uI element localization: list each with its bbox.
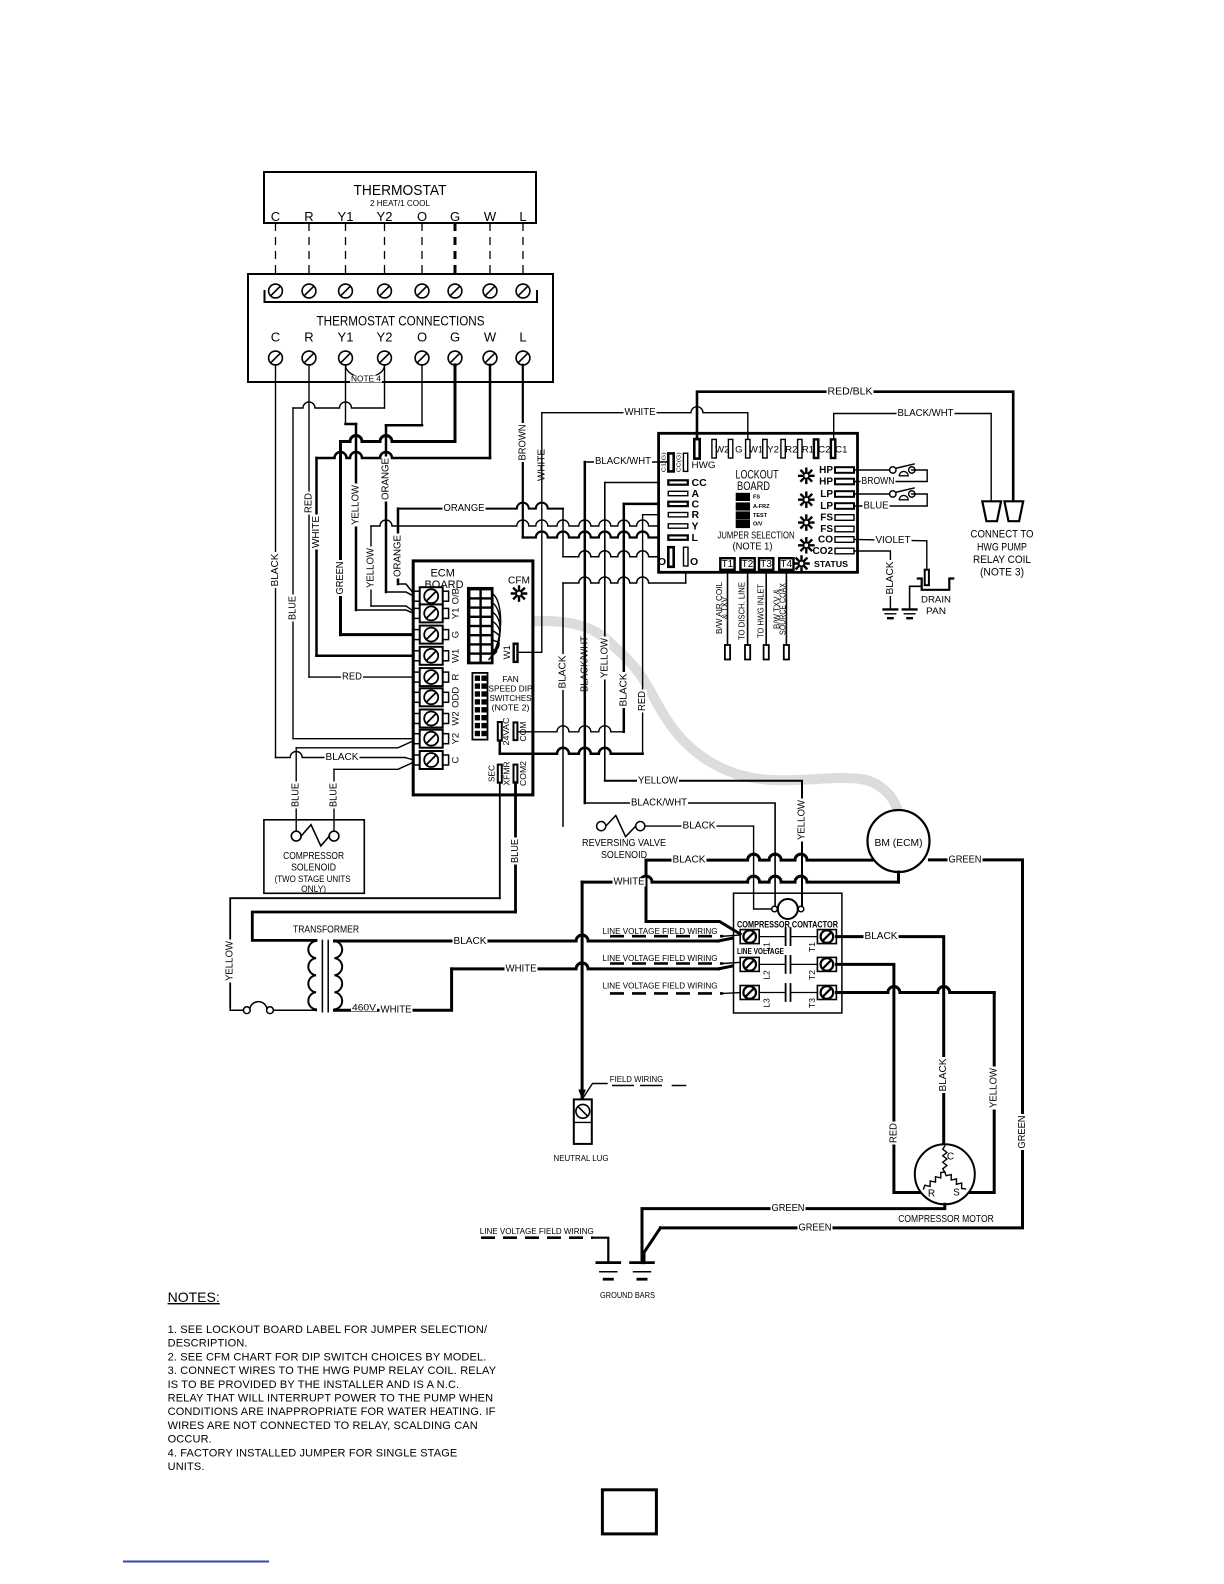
svg-text:GREEN: GREEN [799,1222,832,1233]
svg-text:CONDITIONS ARE INAPPROPRIATE F: CONDITIONS ARE INAPPROPRIATE FOR WATER H… [168,1406,496,1418]
svg-text:G: G [451,631,462,638]
svg-text:O: O [417,330,427,345]
svg-text:NOTES:: NOTES: [168,1289,220,1305]
svg-text:T3: T3 [807,998,817,1008]
svg-text:RELAY COIL: RELAY COIL [973,554,1031,566]
svg-text:C: C [271,209,280,224]
svg-text:BLACK: BLACK [270,553,281,586]
svg-text:SEC: SEC [487,765,497,782]
svg-text:BLACK: BLACK [885,561,896,594]
svg-text:WHITE: WHITE [614,877,645,888]
svg-text:BLACK/WHT: BLACK/WHT [595,456,651,467]
svg-text:CFM: CFM [508,575,530,587]
svg-text:SWITCHES: SWITCHES [490,693,532,703]
svg-text:BLUE: BLUE [864,501,889,512]
svg-text:LINE VOLTAGE FIELD WIRING: LINE VOLTAGE FIELD WIRING [603,954,718,963]
svg-text:COMPRESSOR MOTOR: COMPRESSOR MOTOR [898,1214,994,1225]
svg-text:RELAY THAT WILL INTERRUPT POWE: RELAY THAT WILL INTERRUPT POWER TO THE P… [168,1393,494,1405]
svg-text:GREEN: GREEN [949,854,982,865]
svg-text:ORANGE: ORANGE [393,535,404,577]
svg-text:YELLOW: YELLOW [366,547,377,588]
svg-text:FAN: FAN [502,674,519,684]
svg-text:SOURCE COAX: SOURCE COAX [778,582,787,635]
svg-text:DRAIN: DRAIN [921,595,951,606]
svg-text:THERMOSTAT CONNECTIONS: THERMOSTAT CONNECTIONS [317,314,485,329]
svg-text:W: W [484,209,497,224]
svg-text:WHITE: WHITE [625,407,656,418]
svg-text:BLACK: BLACK [683,821,716,832]
svg-text:ORANGE: ORANGE [444,503,485,514]
svg-text:REVERSING VALVE: REVERSING VALVE [582,838,666,849]
svg-text:ONLY): ONLY) [301,884,326,894]
svg-text:RED/BLK: RED/BLK [828,387,873,398]
svg-text:RED: RED [637,691,648,711]
svg-text:BLUE: BLUE [288,596,299,620]
svg-text:& TXV: & TXV [721,596,730,619]
svg-text:Y: Y [692,521,699,533]
svg-text:1. SEE LOCKOUT BOARD LABEL FOR: 1. SEE LOCKOUT BOARD LABEL FOR JUMPER SE… [168,1324,488,1336]
svg-text:A-FRZ: A-FRZ [753,504,770,510]
svg-text:W: W [484,330,497,345]
svg-text:O/V: O/V [753,521,763,527]
svg-text:LP: LP [820,489,833,500]
svg-text:W1: W1 [502,645,513,659]
svg-text:Y2: Y2 [377,209,393,224]
svg-text:BROWN: BROWN [862,476,895,487]
svg-text:VIOLET: VIOLET [876,535,911,546]
svg-text:LINE VOLTAGE FIELD WIRING: LINE VOLTAGE FIELD WIRING [480,1227,594,1236]
svg-text:STATUS: STATUS [814,560,849,569]
svg-text:R: R [304,330,313,345]
svg-text:HWG PUMP: HWG PUMP [977,542,1027,554]
svg-text:R2: R2 [785,445,797,456]
svg-text:(NOTE 2): (NOTE 2) [492,703,530,713]
svg-text:T2: T2 [742,559,754,570]
svg-text:T1: T1 [807,942,817,952]
svg-text:T2: T2 [807,970,817,980]
svg-text:Y2: Y2 [451,733,462,745]
svg-text:NEUTRAL LUG: NEUTRAL LUG [554,1154,609,1163]
svg-text:24VAC: 24VAC [501,718,511,746]
svg-text:G: G [450,330,460,345]
svg-text:BROWN: BROWN [517,425,528,461]
svg-text:BLACK: BLACK [618,673,629,706]
svg-text:O/B: O/B [451,588,462,604]
svg-text:4. FACTORY INSTALLED JUMPER FO: 4. FACTORY INSTALLED JUMPER FOR SINGLE S… [168,1447,458,1459]
svg-text:2 HEAT/1 COOL: 2 HEAT/1 COOL [370,198,430,208]
svg-text:GREEN: GREEN [335,562,346,595]
svg-text:R: R [451,674,462,681]
svg-text:Y2: Y2 [377,330,393,345]
svg-text:W1: W1 [451,649,462,663]
svg-text:3. CONNECT WIRES TO THE HWG PU: 3. CONNECT WIRES TO THE HWG PUMP RELAY C… [168,1365,497,1377]
svg-text:COMPRESSOR CONTACTOR: COMPRESSOR CONTACTOR [737,920,838,930]
svg-text:YELLOW: YELLOW [638,775,679,786]
svg-text:LINE VOLTAGE FIELD WIRING: LINE VOLTAGE FIELD WIRING [603,982,718,991]
svg-text:L: L [519,209,526,224]
svg-text:BLUE: BLUE [510,839,521,863]
svg-text:R: R [928,1189,935,1200]
svg-text:TRANSFORMER: TRANSFORMER [293,924,359,936]
svg-text:WHITE: WHITE [311,516,322,548]
svg-text:S: S [953,1188,960,1199]
svg-text:TEST: TEST [753,513,768,519]
svg-text:LP: LP [820,501,833,512]
svg-text:BLUE: BLUE [291,783,302,807]
svg-text:YELLOW: YELLOW [599,637,610,678]
svg-text:O: O [658,556,666,568]
svg-text:Y2: Y2 [767,445,779,456]
svg-text:W2: W2 [451,711,462,725]
svg-text:BLACK/WHT: BLACK/WHT [898,408,954,419]
svg-text:C1: C1 [835,445,847,456]
svg-text:HWG: HWG [692,460,716,470]
svg-text:RED: RED [888,1123,899,1143]
svg-text:(TWO STAGE UNITS: (TWO STAGE UNITS [275,874,351,884]
svg-text:DESCRIPTION.: DESCRIPTION. [168,1338,248,1350]
svg-text:C1(G): C1(G) [662,452,668,472]
svg-text:OCCUR.: OCCUR. [168,1434,212,1446]
svg-text:UNITS.: UNITS. [168,1461,205,1473]
svg-text:SOLENOID: SOLENOID [291,863,336,874]
svg-text:SOLENOID: SOLENOID [601,850,647,861]
svg-text:BLACK: BLACK [673,855,706,866]
svg-text:IS TO BE PROVIDED BY THE INSTA: IS TO BE PROVIDED BY THE INSTALLER AND I… [168,1379,460,1391]
svg-text:O: O [690,556,698,568]
svg-text:JUMPER SELECTION: JUMPER SELECTION [718,531,795,542]
svg-text:R: R [692,509,700,521]
svg-text:BLACK: BLACK [326,752,359,763]
svg-text:HP: HP [819,465,833,476]
svg-text:SPEED DIP: SPEED DIP [489,684,533,694]
svg-text:FS: FS [753,494,760,500]
svg-text:460V: 460V [352,1002,376,1012]
svg-text:WHITE: WHITE [381,1005,412,1016]
svg-text:L1: L1 [762,942,772,952]
svg-text:2. SEE CFM CHART FOR DIP SWITC: 2. SEE CFM CHART FOR DIP SWITCH CHOICES … [168,1351,487,1363]
svg-text:C2: C2 [818,445,830,456]
svg-text:ORANGE: ORANGE [381,458,392,500]
svg-text:Y1: Y1 [451,608,462,620]
svg-text:YELLOW: YELLOW [225,940,236,981]
svg-text:FS: FS [820,524,833,535]
svg-text:YELLOW: YELLOW [351,484,362,525]
svg-text:(NOTE 3): (NOTE 3) [980,567,1024,579]
svg-text:L: L [519,330,526,345]
svg-text:CONNECT TO: CONNECT TO [971,529,1034,541]
svg-text:XFMR: XFMR [502,762,512,786]
svg-text:TO DISCH. LINE: TO DISCH. LINE [738,582,747,640]
svg-text:WHITE: WHITE [506,963,537,974]
svg-text:CC(G): CC(G) [677,452,683,472]
svg-text:COM2: COM2 [518,761,528,786]
svg-text:BOARD: BOARD [737,481,770,493]
svg-text:BM (ECM): BM (ECM) [875,837,923,849]
svg-text:RED: RED [304,493,315,513]
svg-text:WIRES ARE NOT CONNECTED TO REL: WIRES ARE NOT CONNECTED TO RELAY, SCALDI… [168,1420,478,1432]
svg-text:BLUE: BLUE [329,783,340,807]
svg-text:C: C [451,756,462,763]
svg-text:HP: HP [819,476,833,487]
svg-text:G: G [735,445,742,456]
svg-text:BLACK: BLACK [558,655,569,688]
svg-text:GREEN: GREEN [772,1203,805,1214]
svg-text:FS: FS [820,512,833,523]
svg-text:THERMOSTAT: THERMOSTAT [354,182,447,199]
svg-text:L3: L3 [762,998,772,1008]
svg-text:R: R [304,209,313,224]
svg-text:ECM: ECM [430,568,454,580]
svg-text:GROUND BARS: GROUND BARS [600,1291,655,1300]
svg-text:YELLOW: YELLOW [797,799,808,840]
svg-text:BLACK: BLACK [938,1058,949,1091]
svg-text:(NOTE 1): (NOTE 1) [733,542,773,553]
svg-text:C: C [271,330,280,345]
svg-text:T1: T1 [722,559,734,570]
svg-text:L2: L2 [762,970,772,980]
svg-text:CO2: CO2 [812,546,833,557]
svg-text:O: O [417,209,427,224]
svg-text:G: G [450,209,460,224]
svg-text:C: C [947,1152,954,1163]
svg-text:Y1: Y1 [338,330,354,345]
svg-text:LOCKOUT: LOCKOUT [736,470,779,482]
svg-text:TO HWG INLET: TO HWG INLET [757,584,766,638]
svg-text:BLACK: BLACK [865,931,898,942]
svg-text:BLACK: BLACK [454,936,487,947]
svg-text:YELLOW: YELLOW [989,1067,1000,1108]
svg-text:LINE VOLTAGE FIELD WIRING: LINE VOLTAGE FIELD WIRING [603,927,718,936]
svg-text:W2: W2 [715,445,729,456]
svg-text:L: L [692,532,699,544]
svg-text:NOTE 4: NOTE 4 [351,375,382,384]
svg-text:ODD: ODD [451,687,462,708]
svg-text:GREEN: GREEN [1017,1116,1028,1149]
svg-text:COMPRESSOR: COMPRESSOR [283,851,344,862]
svg-text:FIELD WIRING: FIELD WIRING [610,1075,663,1084]
svg-text:Y1: Y1 [338,209,354,224]
svg-text:BLACK/WHT: BLACK/WHT [631,798,687,809]
svg-text:R1: R1 [802,445,814,456]
svg-text:CO: CO [818,534,833,545]
svg-text:T3: T3 [760,559,772,570]
svg-text:W1: W1 [749,445,763,456]
svg-text:PAN: PAN [926,606,946,617]
svg-text:T4: T4 [780,559,792,570]
svg-text:RED: RED [342,672,362,683]
